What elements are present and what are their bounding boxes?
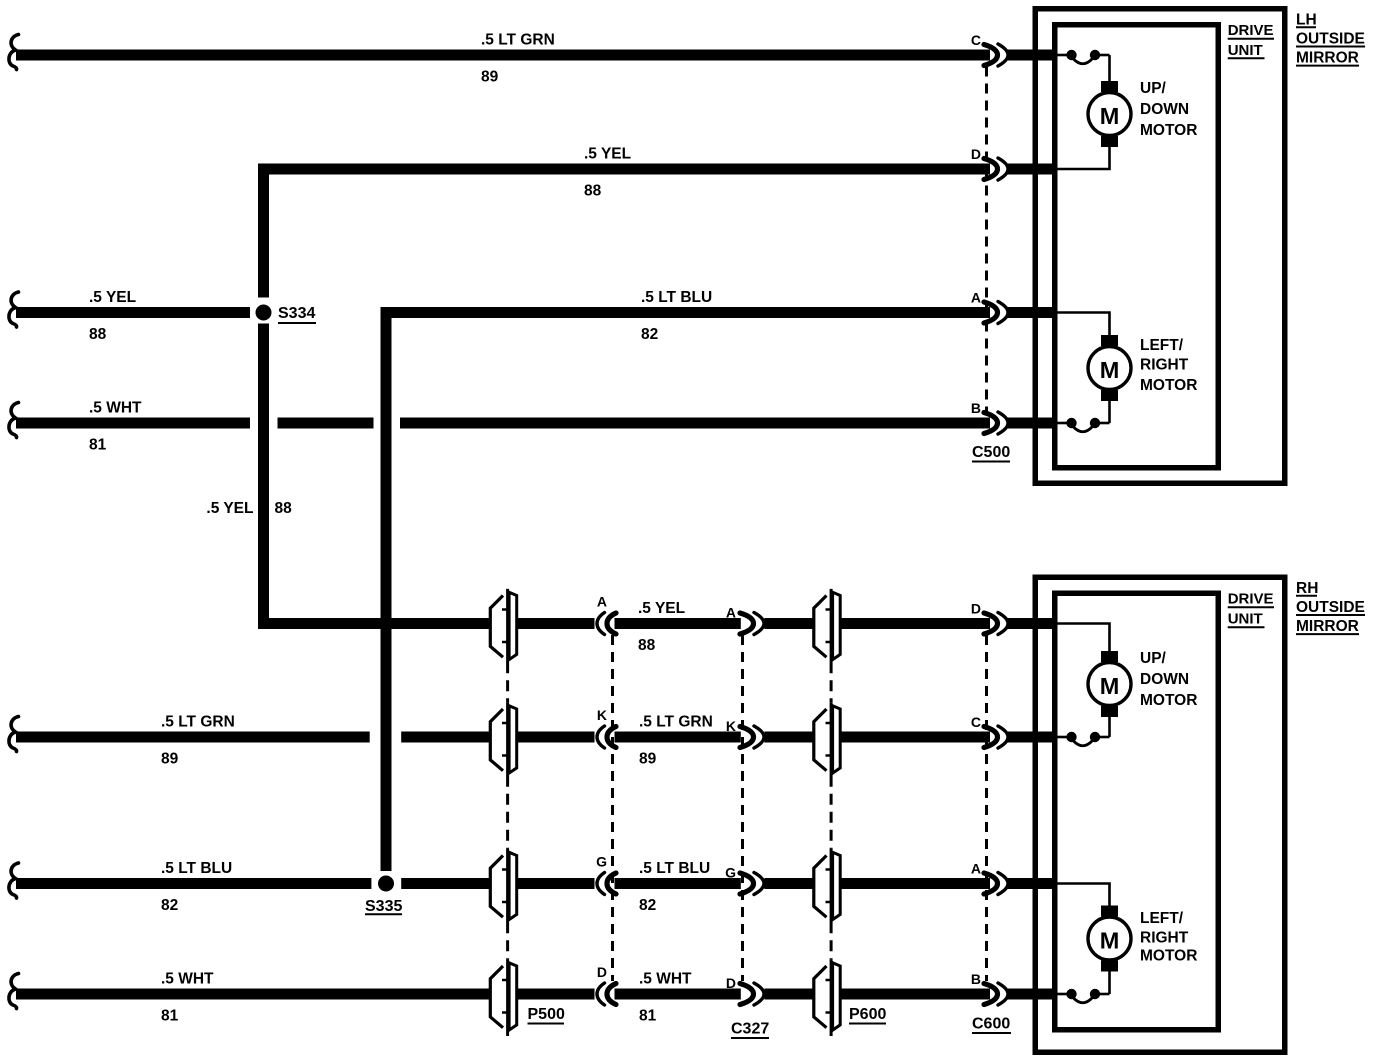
RH left/right motor M4 — [1088, 906, 1131, 972]
svg-text:UNIT: UNIT — [1228, 611, 1263, 628]
connector C600 pin B — [984, 983, 1008, 1005]
svg-text:81: 81 — [161, 1008, 179, 1025]
svg-text:G: G — [596, 854, 607, 870]
svg-text:88: 88 — [638, 637, 656, 654]
svg-text:P500: P500 — [528, 1006, 565, 1023]
svg-text:DRIVE: DRIVE — [1228, 591, 1274, 608]
svg-text:B: B — [971, 400, 981, 416]
terminal loop row B — [1058, 418, 1110, 432]
svg-text:88: 88 — [275, 500, 293, 517]
wire break symbol RH row 3 — [9, 863, 19, 898]
wire .5 YEL 88 RH row 1 — [258, 618, 990, 629]
svg-text:G: G — [725, 865, 736, 881]
dashed column P500 — [506, 673, 509, 959]
wire .5 LT BLU 82 RH row 3 — [16, 878, 990, 889]
wire to LH up/down motor top — [1108, 55, 1111, 81]
dashed column C327 right — [741, 635, 744, 981]
splice S335 — [378, 876, 394, 892]
svg-text:.5 WHT: .5 WHT — [161, 971, 214, 988]
svg-text:88: 88 — [89, 326, 107, 343]
connector C500 pin C — [984, 44, 1008, 66]
vertical wire .5 YEL 88 from S334 — [258, 164, 269, 630]
svg-text:A: A — [597, 594, 607, 610]
svg-text:K: K — [726, 718, 736, 734]
svg-text:.5 LT GRN: .5 LT GRN — [639, 714, 713, 731]
svg-text:UP/: UP/ — [1140, 650, 1167, 667]
wire RH row 1 to up/down motor top — [1058, 624, 1110, 652]
wire RH left/right motor bottom to row 4 — [1108, 972, 1111, 995]
connector C600 pin D — [984, 613, 1008, 635]
wire .5 YEL 88 row D — [258, 164, 990, 175]
wire row A stub inside drive unit — [1008, 307, 1058, 318]
svg-text:UP/: UP/ — [1140, 80, 1167, 97]
dashed column P600 — [830, 673, 833, 959]
svg-text:DOWN: DOWN — [1140, 101, 1189, 118]
grommet P600 row 3 — [814, 849, 840, 933]
svg-text:C: C — [971, 714, 981, 730]
svg-text:C500: C500 — [972, 444, 1010, 461]
svg-text:S335: S335 — [365, 898, 402, 915]
RH up/down motor M3 — [1088, 651, 1131, 717]
svg-text:82: 82 — [639, 897, 656, 914]
wire .5 LT GRN 89 row C — [16, 50, 990, 61]
wire row A to LH left/right motor top — [1058, 313, 1110, 336]
svg-text:.5 LT BLU: .5 LT BLU — [639, 860, 710, 877]
dashed column C600 — [985, 635, 988, 981]
svg-text:89: 89 — [639, 751, 657, 768]
wire break symbol RH row 2 — [9, 717, 19, 752]
svg-text:D: D — [971, 146, 981, 162]
LH drive unit inner box — [1055, 25, 1219, 468]
splice S334 — [256, 305, 272, 321]
svg-text:A: A — [726, 605, 736, 621]
svg-text:LH: LH — [1296, 11, 1317, 28]
connector C600 pin A — [984, 873, 1008, 895]
svg-text:81: 81 — [89, 437, 107, 454]
svg-text:89: 89 — [481, 69, 499, 86]
svg-text:.5 LT BLU: .5 LT BLU — [161, 860, 232, 877]
wire LH left/right motor bottom to row B — [1108, 401, 1111, 423]
wire RH row 2 stub inside drive unit — [1008, 732, 1058, 743]
connector C327 left pin G — [597, 873, 616, 895]
svg-text:MIRROR: MIRROR — [1296, 618, 1359, 635]
svg-text:A: A — [971, 290, 981, 306]
svg-text:D: D — [726, 975, 736, 991]
connector C327 right pin D — [740, 983, 764, 1005]
wire RH up/down motor bottom to row 2 — [1108, 717, 1111, 737]
connector C327 right pin K — [740, 726, 764, 748]
wire RH row 4 stub inside drive unit — [1008, 989, 1058, 1000]
wire RH row 1 stub inside drive unit — [1008, 618, 1058, 629]
grommet P600 row 4 — [814, 959, 840, 1036]
svg-text:.5 YEL: .5 YEL — [89, 289, 136, 306]
connector C327 left pin K — [597, 726, 616, 748]
connector C500 pin D — [984, 158, 1008, 180]
svg-text:.5 YEL: .5 YEL — [206, 500, 253, 517]
svg-text:D: D — [971, 601, 981, 617]
dashed column C327 left — [611, 635, 614, 981]
svg-text:.5 YEL: .5 YEL — [584, 146, 631, 163]
svg-text:88: 88 — [584, 183, 602, 200]
RH drive unit inner box — [1055, 593, 1219, 1030]
svg-text:.5 LT BLU: .5 LT BLU — [641, 289, 712, 306]
svg-text:DRIVE: DRIVE — [1228, 22, 1274, 39]
grommet P500 row 2 — [490, 702, 516, 786]
svg-text:.5 WHT: .5 WHT — [89, 400, 142, 417]
wire row D stub inside drive unit — [1008, 164, 1058, 175]
svg-text:81: 81 — [639, 1008, 657, 1025]
svg-text:82: 82 — [641, 326, 658, 343]
svg-text:MOTOR: MOTOR — [1140, 692, 1197, 709]
svg-text:.5 YEL: .5 YEL — [638, 600, 685, 617]
wire break symbol row B — [9, 403, 19, 438]
svg-text:P600: P600 — [849, 1006, 886, 1023]
svg-text:C327: C327 — [731, 1021, 769, 1038]
svg-text:MOTOR: MOTOR — [1140, 948, 1197, 965]
svg-text:RIGHT: RIGHT — [1140, 930, 1189, 947]
LH left/right motor M2 — [1088, 335, 1131, 401]
grommet P600 row 2 — [814, 702, 840, 786]
svg-text:82: 82 — [161, 897, 178, 914]
vertical wire .5 LT BLU 82 to S335 — [381, 307, 392, 871]
svg-text:LEFT/: LEFT/ — [1140, 910, 1184, 927]
svg-text:OUTSIDE: OUTSIDE — [1296, 31, 1365, 48]
svg-text:.5 WHT: .5 WHT — [639, 971, 692, 988]
svg-text:89: 89 — [161, 751, 179, 768]
svg-text:MIRROR: MIRROR — [1296, 50, 1359, 67]
svg-text:DOWN: DOWN — [1140, 671, 1189, 688]
svg-text:OUTSIDE: OUTSIDE — [1296, 599, 1365, 616]
svg-text:MOTOR: MOTOR — [1140, 377, 1197, 394]
svg-text:.5 LT GRN: .5 LT GRN — [161, 714, 235, 731]
grommet P500 row 1 — [490, 589, 516, 673]
wire LH up/down motor bottom to row D — [1058, 147, 1110, 169]
svg-text:A: A — [971, 861, 981, 877]
svg-text:C: C — [971, 32, 981, 48]
wire RH row 3 stub inside drive unit — [1008, 878, 1058, 889]
terminal loop row C — [1058, 50, 1110, 64]
svg-text:S334: S334 — [278, 305, 315, 322]
wire row B stub inside drive unit — [1008, 418, 1058, 429]
svg-text:RH: RH — [1296, 580, 1318, 597]
svg-text:.5 LT GRN: .5 LT GRN — [481, 32, 555, 49]
dashed column C500 — [985, 67, 988, 412]
terminal loop RH row 4 — [1058, 989, 1110, 1003]
grommet P600 row 1 — [814, 589, 840, 673]
svg-text:UNIT: UNIT — [1228, 42, 1263, 59]
terminal loop RH row 2 — [1058, 732, 1110, 746]
wire .5 YEL 88 row A left — [16, 307, 250, 318]
LH up/down motor M1 — [1088, 81, 1131, 147]
svg-text:D: D — [597, 964, 607, 980]
wire break symbol RH row 4 — [9, 974, 19, 1009]
grommet P500 row 3 — [490, 849, 516, 933]
svg-text:K: K — [597, 707, 607, 723]
grommet P500 row 4 — [490, 959, 516, 1036]
wire .5 LT GRN 89 RH row 2 — [16, 732, 990, 743]
connector C500 pin B — [984, 412, 1008, 434]
connector C327 left pin A — [597, 613, 616, 635]
wire break symbol row A — [9, 292, 19, 327]
svg-text:B: B — [971, 971, 981, 987]
connector C327 right pin G — [740, 873, 764, 895]
wire RH row 3 to left/right motor top — [1058, 884, 1110, 906]
RH drive unit outer box — [1035, 577, 1285, 1052]
svg-text:C600: C600 — [972, 1016, 1010, 1033]
svg-text:RIGHT: RIGHT — [1140, 357, 1189, 374]
wire break symbol row C — [9, 35, 19, 70]
wire row C stub inside drive unit — [1008, 50, 1058, 61]
connector C327 right pin A — [740, 613, 764, 635]
connector C600 pin C — [984, 726, 1008, 748]
wire .5 LT BLU 82 row A — [381, 307, 991, 318]
wire .5 WHT 81 row B — [16, 418, 990, 429]
LH drive unit outer box — [1035, 9, 1285, 484]
wire .5 WHT 81 RH row 4 — [16, 989, 990, 1000]
connector C327 left pin D — [597, 983, 616, 1005]
connector C500 pin A — [984, 302, 1008, 324]
svg-text:LEFT/: LEFT/ — [1140, 337, 1184, 354]
svg-text:MOTOR: MOTOR — [1140, 122, 1197, 139]
